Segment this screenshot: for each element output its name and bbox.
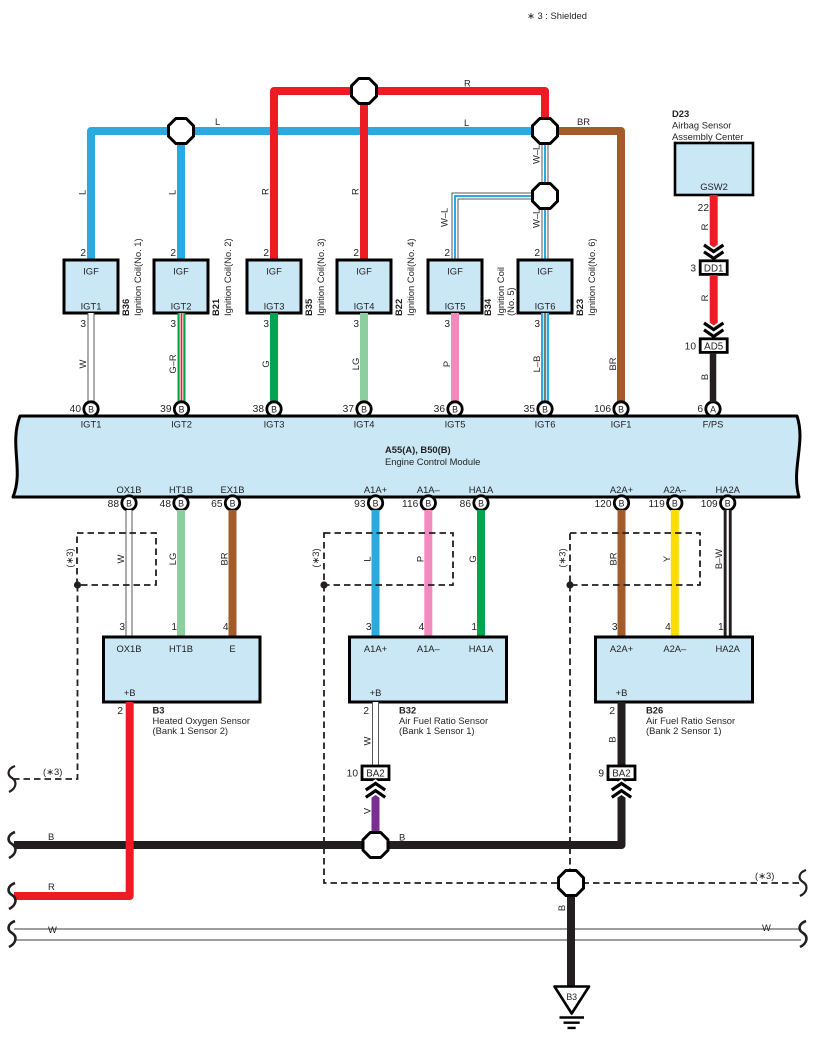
wire L ECM 93 to B32 A1A+ <box>362 510 376 637</box>
svg-text:IGT6: IGT6 <box>535 419 556 430</box>
svg-text:AD5: AD5 <box>704 341 724 352</box>
svg-text:+B: +B <box>616 687 628 698</box>
pin 65 B EX1B <box>211 496 240 510</box>
wire R DD1 to AD5 <box>699 275 723 339</box>
svg-text:B: B <box>361 405 367 415</box>
svg-text:B–W: B–W <box>713 549 724 569</box>
shield drain dashed from box1 <box>14 585 78 779</box>
wire B AD5 to ECM pin 6 <box>699 353 713 402</box>
svg-text:B3: B3 <box>153 705 165 716</box>
pin 106 B IGF1 <box>594 402 628 416</box>
svg-text:3: 3 <box>444 319 450 330</box>
svg-text:B26: B26 <box>646 705 663 716</box>
svg-text:E: E <box>229 643 235 654</box>
svg-text:Engine Control Module: Engine Control Module <box>385 456 480 467</box>
svg-text:G–R: G–R <box>167 354 178 374</box>
pin 116 B A1A- <box>402 496 435 510</box>
svg-text:10: 10 <box>347 769 359 780</box>
svg-text:HT1B: HT1B <box>169 484 193 495</box>
svg-text:35: 35 <box>524 404 536 415</box>
svg-text:2: 2 <box>117 706 123 717</box>
svg-text:B: B <box>373 499 379 509</box>
svg-text:2: 2 <box>353 248 359 259</box>
ignition coil B35 No.3 <box>247 238 326 330</box>
svg-text:B: B <box>178 499 184 509</box>
pin 93 B A1A+ <box>354 496 383 510</box>
svg-text:IGT5: IGT5 <box>445 301 466 312</box>
svg-text:106: 106 <box>594 404 611 415</box>
pin 39 B IGT2 <box>160 402 189 416</box>
svg-text:+B: +B <box>124 687 136 698</box>
svg-text:3: 3 <box>263 319 269 330</box>
svg-text:B: B <box>271 405 277 415</box>
svg-text:B36: B36 <box>120 299 131 316</box>
svg-text:R: R <box>464 78 471 89</box>
wire B-W ECM 109 to B26 HA2A <box>713 510 728 637</box>
svg-text:3: 3 <box>353 319 359 330</box>
svg-text:R: R <box>699 294 710 301</box>
svg-text:2: 2 <box>80 248 86 259</box>
svg-text:HA1A: HA1A <box>469 643 494 654</box>
svg-text:B: B <box>478 499 484 509</box>
svg-text:2: 2 <box>363 706 369 717</box>
svg-text:W: W <box>115 554 126 563</box>
svg-text:IGT6: IGT6 <box>535 301 556 312</box>
ignition coil B21 No.2 <box>154 238 233 330</box>
svg-text:R: R <box>699 223 710 230</box>
svg-text:119: 119 <box>649 499 666 510</box>
svg-text:Ignition Coil(No. 1): Ignition Coil(No. 1) <box>132 238 143 316</box>
splice octagon on red <box>352 79 377 104</box>
svg-text:IGF: IGF <box>356 266 372 277</box>
wire W-L shielded pair IGT5/IGT6 <box>455 131 545 260</box>
svg-text:P: P <box>441 361 452 367</box>
svg-text:B32: B32 <box>399 705 416 716</box>
svg-text:B: B <box>556 905 567 911</box>
svg-text:W–L: W–L <box>531 209 542 228</box>
svg-text:DD1: DD1 <box>704 263 724 274</box>
svg-text:W: W <box>361 736 372 745</box>
svg-text:R: R <box>260 188 271 195</box>
svg-text:R: R <box>48 881 55 892</box>
svg-text:2: 2 <box>263 248 269 259</box>
svg-text:OX1B: OX1B <box>116 484 141 495</box>
svg-text:A2A–: A2A– <box>663 643 687 654</box>
svg-text:B: B <box>672 499 678 509</box>
svg-text:OX1B: OX1B <box>116 643 141 654</box>
svg-text:3: 3 <box>119 622 125 633</box>
svg-text:HA2A: HA2A <box>715 643 740 654</box>
svg-text:IGF: IGF <box>173 266 189 277</box>
wire blue L drop to IGT2 <box>177 131 185 260</box>
svg-text:2: 2 <box>170 248 176 259</box>
svg-text:Assembly Center: Assembly Center <box>672 131 743 142</box>
air fuel ratio sensor B26 <box>596 637 753 736</box>
svg-text:A1A+: A1A+ <box>364 484 388 495</box>
svg-text:EX1B: EX1B <box>221 484 245 495</box>
svg-text:(Bank 1 Sensor 2): (Bank 1 Sensor 2) <box>153 725 229 736</box>
svg-text:L: L <box>167 190 178 195</box>
air fuel ratio sensor B32 <box>350 637 507 736</box>
wire B main ground rail <box>14 780 622 845</box>
svg-text:IGF1: IGF1 <box>611 419 632 430</box>
wire W ECM 88 to B3 OX1B <box>115 510 129 637</box>
svg-text:B35: B35 <box>303 299 314 316</box>
wire W bottom rail <box>14 922 801 940</box>
wire B from B26 +B to BA2 <box>607 702 622 766</box>
svg-text:B23: B23 <box>574 299 585 316</box>
shield dashed box 2 <box>310 533 453 589</box>
svg-text:38: 38 <box>253 404 265 415</box>
svg-text:(∗3): (∗3) <box>43 766 62 777</box>
svg-text:Ignition Coil(No. 2): Ignition Coil(No. 2) <box>222 238 233 316</box>
ignition coil B34 No.5 <box>428 248 516 330</box>
pin 36 B IGT5 <box>434 402 463 416</box>
svg-text:B21: B21 <box>210 299 221 316</box>
svg-text:IGT4: IGT4 <box>354 419 375 430</box>
svg-text:65: 65 <box>211 499 223 510</box>
pin 35 B IGT6 <box>524 402 553 416</box>
splice octagon on B rail <box>363 833 388 858</box>
svg-text:A2A+: A2A+ <box>610 643 634 654</box>
svg-text:(∗3): (∗3) <box>557 548 568 567</box>
svg-text:W: W <box>762 922 771 933</box>
connector BA2 pin 9 <box>598 766 635 797</box>
svg-text:∗ 3 : Shielded: ∗ 3 : Shielded <box>527 10 587 21</box>
svg-text:116: 116 <box>402 499 419 510</box>
svg-text:(Bank 2 Sensor 1): (Bank 2 Sensor 1) <box>646 725 722 736</box>
svg-text:39: 39 <box>160 404 172 415</box>
svg-text:B: B <box>179 405 185 415</box>
svg-text:G: G <box>260 360 271 367</box>
wire brown BR from splice to IGF1 <box>545 131 621 402</box>
svg-text:2: 2 <box>534 248 540 259</box>
svg-text:BA2: BA2 <box>366 769 385 780</box>
svg-text:P: P <box>414 556 425 562</box>
pin 37 B IGT4 <box>343 402 372 416</box>
D23 airbag sensor assembly center <box>672 108 743 142</box>
svg-text:B34: B34 <box>482 298 493 316</box>
svg-text:48: 48 <box>160 499 172 510</box>
svg-text:+B: +B <box>370 687 382 698</box>
svg-text:IGT2: IGT2 <box>171 419 192 430</box>
wire W from IGT1 to ECM pin 40 <box>77 313 91 402</box>
svg-text:B: B <box>399 832 405 843</box>
svg-text:B: B <box>88 405 94 415</box>
svg-text:IGT5: IGT5 <box>445 419 466 430</box>
svg-text:IGT2: IGT2 <box>171 301 192 312</box>
wire LG ECM 48 to B3 HT1B <box>167 510 181 637</box>
svg-text:B: B <box>618 405 624 415</box>
svg-text:BR: BR <box>577 116 590 127</box>
wire blue L horizontal <box>91 131 545 260</box>
svg-text:HA2A: HA2A <box>715 484 740 495</box>
svg-text:W: W <box>48 924 57 935</box>
svg-text:(No. 5): (No. 5) <box>505 287 516 316</box>
heated oxygen sensor B3 <box>104 637 261 736</box>
svg-text:B: B <box>607 736 618 742</box>
svg-text:(∗3): (∗3) <box>755 870 774 881</box>
svg-text:Ignition Coil(No. 4): Ignition Coil(No. 4) <box>405 238 416 316</box>
svg-text:A1A–: A1A– <box>417 643 441 654</box>
svg-text:BR: BR <box>607 357 618 370</box>
splice octagon E (blue junction) <box>169 119 194 144</box>
svg-text:3: 3 <box>170 319 176 330</box>
svg-text:Ignition Coil(No. 3): Ignition Coil(No. 3) <box>315 238 326 316</box>
svg-text:(Bank 1 Sensor 1): (Bank 1 Sensor 1) <box>399 725 475 736</box>
svg-text:1: 1 <box>718 622 724 633</box>
svg-text:4: 4 <box>223 622 229 633</box>
splice octagon W-L <box>533 184 558 209</box>
pin 38 B IGT3 <box>253 402 282 416</box>
ECM band A55(A) B50(B) <box>13 416 800 497</box>
svg-text:37: 37 <box>343 404 355 415</box>
svg-text:L: L <box>77 190 88 195</box>
wire W from B32 +B to BA2 <box>361 702 375 766</box>
wire V from octagon to BA2 chevrons <box>361 795 375 840</box>
svg-text:L: L <box>215 116 220 127</box>
pin 120 B A2A+ <box>595 496 629 510</box>
wire R GSW2 to DD1 <box>698 195 724 261</box>
svg-text:3: 3 <box>534 319 540 330</box>
connector DD1 pin 3 <box>690 261 727 275</box>
svg-text:B: B <box>699 374 710 380</box>
svg-text:IGT1: IGT1 <box>81 301 102 312</box>
shield dashed box 1 <box>64 533 156 589</box>
svg-text:LG: LG <box>167 553 178 566</box>
svg-text:4: 4 <box>665 622 671 633</box>
svg-text:B: B <box>425 499 431 509</box>
svg-text:B: B <box>725 499 731 509</box>
pin 48 B HT1B <box>160 496 189 510</box>
svg-text:3: 3 <box>690 264 696 275</box>
ignition coil B36 No.1 <box>64 238 143 330</box>
wire red R horizontal <box>274 91 545 260</box>
shield drain dashed from box3 to octagon <box>569 585 571 877</box>
svg-text:40: 40 <box>70 404 82 415</box>
svg-text:B3: B3 <box>566 992 577 1002</box>
wire G from IGT3 to ECM pin 38 <box>260 313 274 402</box>
wire B octagon to ground <box>556 893 571 988</box>
pin 88 B OX1B <box>108 496 137 510</box>
svg-text:(∗3): (∗3) <box>310 548 321 567</box>
svg-text:B: B <box>452 405 458 415</box>
svg-text:LG: LG <box>350 358 361 371</box>
svg-text:V: V <box>361 807 372 814</box>
svg-text:L: L <box>362 556 373 561</box>
svg-text:IGF: IGF <box>447 266 463 277</box>
sensor pin numbers <box>119 622 724 633</box>
wire R from B3 +B to left break <box>14 702 130 896</box>
svg-text:IGT3: IGT3 <box>264 419 285 430</box>
svg-text:10: 10 <box>685 342 697 353</box>
svg-text:W–L: W–L <box>531 145 542 164</box>
svg-text:1: 1 <box>171 622 177 633</box>
svg-text:A2A+: A2A+ <box>610 484 634 495</box>
svg-text:3: 3 <box>366 622 372 633</box>
svg-text:Y: Y <box>661 555 672 562</box>
svg-text:GSW2: GSW2 <box>700 181 728 192</box>
shield dashed box 3 <box>557 533 701 589</box>
ignition coil B22 No.4 <box>337 238 416 330</box>
svg-text:4: 4 <box>419 622 425 633</box>
svg-text:6: 6 <box>697 404 703 415</box>
svg-text:D23: D23 <box>672 108 689 119</box>
svg-text:A1A–: A1A– <box>417 484 441 495</box>
pin 109 B HA2A <box>701 496 735 510</box>
svg-text:120: 120 <box>595 499 612 510</box>
svg-text:86: 86 <box>460 499 472 510</box>
svg-text:22: 22 <box>698 203 710 214</box>
pin 6 A F/PS <box>697 402 720 416</box>
svg-text:B: B <box>230 499 236 509</box>
svg-text:IGT3: IGT3 <box>264 301 285 312</box>
svg-text:B: B <box>542 405 548 415</box>
svg-text:Ignition Coil(No. 6): Ignition Coil(No. 6) <box>586 238 597 316</box>
wire P ECM 116 to B32 A1A- <box>414 510 428 637</box>
shield drain dashed from box2 to right break <box>324 585 800 883</box>
svg-text:93: 93 <box>354 499 366 510</box>
svg-text:G: G <box>467 555 478 562</box>
ignition coil B23 No.6 <box>518 238 597 330</box>
svg-text:BA2: BA2 <box>612 769 631 780</box>
svg-text:A: A <box>710 405 716 415</box>
svg-text:3: 3 <box>80 319 86 330</box>
GSW2 box <box>675 143 753 195</box>
svg-text:A1A+: A1A+ <box>364 643 388 654</box>
connector BA2 pin 10 <box>347 766 389 797</box>
svg-text:IGF: IGF <box>537 266 553 277</box>
svg-text:2: 2 <box>609 706 615 717</box>
wire G ECM 86 to B32 HA1A <box>467 510 481 637</box>
svg-text:3: 3 <box>612 622 618 633</box>
wire BR ECM 65 to B3 E <box>219 510 233 637</box>
svg-text:1: 1 <box>471 622 477 633</box>
svg-text:L–B: L–B <box>531 356 542 373</box>
svg-text:IGT1: IGT1 <box>81 419 102 430</box>
pin 119 B A2A- <box>649 496 682 510</box>
svg-text:W: W <box>77 359 88 368</box>
break symbols left <box>9 766 807 947</box>
svg-text:IGT4: IGT4 <box>354 301 375 312</box>
svg-text:HA1A: HA1A <box>469 484 494 495</box>
svg-text:BR: BR <box>219 552 230 565</box>
wire red R drop to IGT4 <box>360 91 368 260</box>
svg-text:A2A–: A2A– <box>663 484 687 495</box>
splice octagon shield to ground <box>559 871 584 896</box>
wire Y ECM 119 to B26 A2A- <box>661 510 675 637</box>
svg-text:W–L: W–L <box>439 208 450 227</box>
ground symbol B3 <box>555 987 590 1028</box>
svg-text:(∗3): (∗3) <box>64 548 75 567</box>
svg-text:B22: B22 <box>393 299 404 316</box>
pin 40 B IGT1 <box>70 402 99 416</box>
svg-text:BR: BR <box>608 552 619 565</box>
pin 86 B HA1A <box>460 496 489 510</box>
svg-text:F/PS: F/PS <box>703 419 724 430</box>
svg-text:109: 109 <box>701 499 718 510</box>
wire P from IGT5 to ECM pin 36 <box>441 313 455 402</box>
connector AD5 pin 10 <box>685 339 728 353</box>
svg-text:A55(A), B50(B): A55(A), B50(B) <box>385 444 451 455</box>
svg-text:36: 36 <box>434 404 446 415</box>
wire L-B from IGT6 to ECM pin 35 <box>531 313 545 402</box>
splice octagon main right <box>533 119 558 144</box>
svg-text:Airbag Sensor: Airbag Sensor <box>672 120 731 131</box>
wire G-R from IGT2 to ECM pin 39 <box>167 313 182 402</box>
wire BR ECM 120 to B26 A2A+ <box>608 510 622 637</box>
svg-text:B: B <box>126 499 132 509</box>
svg-text:B: B <box>619 499 625 509</box>
svg-text:9: 9 <box>598 769 604 780</box>
svg-text:R: R <box>350 188 361 195</box>
svg-text:B: B <box>48 831 54 842</box>
svg-text:IGF: IGF <box>83 266 99 277</box>
svg-text:L: L <box>464 117 469 128</box>
svg-text:HT1B: HT1B <box>169 643 193 654</box>
svg-text:2: 2 <box>444 248 450 259</box>
wire LG from IGT4 to ECM pin 37 <box>350 313 364 402</box>
svg-text:IGF: IGF <box>266 266 282 277</box>
svg-text:88: 88 <box>108 499 120 510</box>
